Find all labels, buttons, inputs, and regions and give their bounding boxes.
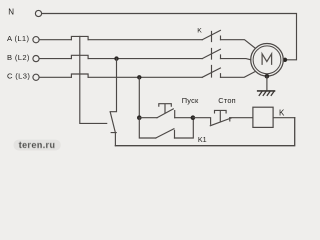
svg-text:teren.ru: teren.ru <box>19 140 56 150</box>
wire phase A terminal to breaker <box>39 39 71 41</box>
auxiliary contact K1 <box>156 129 175 138</box>
wire N rail to motor <box>42 14 297 60</box>
wire phase A breaker to contactor <box>88 39 202 41</box>
junction node 2 <box>191 115 196 120</box>
wire contact B to motor <box>221 59 251 60</box>
ground <box>258 91 275 96</box>
watermark teren.ru <box>14 140 61 151</box>
svg-text:K: K <box>279 109 285 118</box>
svg-text:Пуск: Пуск <box>182 96 199 105</box>
svg-text:K1: K1 <box>198 135 207 144</box>
wire phase C terminal to breaker <box>39 76 71 78</box>
svg-text:C (L3): C (L3) <box>7 72 30 81</box>
wire coil K to right rail <box>273 117 295 119</box>
label M motor <box>262 54 272 65</box>
wire phase C breaker to contactor <box>88 76 202 78</box>
junction tap phase B <box>114 56 118 60</box>
junction motor right node <box>283 58 287 62</box>
svg-text:A (L1): A (L1) <box>7 34 29 43</box>
junction motor bottom node <box>265 74 270 79</box>
wire contact C to motor <box>221 71 256 77</box>
Стоп actuator <box>215 110 227 121</box>
wire phase B terminal to breaker <box>39 58 71 60</box>
wire Стоп to coil K <box>230 117 253 119</box>
wire node 1 down to K1 contact <box>139 118 156 138</box>
terminal N <box>35 10 41 16</box>
svg-text:Стоп: Стоп <box>218 96 236 105</box>
motor M <box>251 44 284 77</box>
contactor K contact B <box>202 49 220 58</box>
wire contact A to motor <box>221 40 256 49</box>
wire phase B breaker to contactor <box>88 58 202 60</box>
wire node 2 to Стоп button <box>193 118 211 125</box>
contactor K linkage (dashed) <box>211 32 213 78</box>
contactor K contact A <box>202 30 220 39</box>
breaker QF pole C <box>71 74 88 77</box>
Пуск actuator <box>159 104 172 113</box>
pushbutton Стоп (NC) <box>210 118 231 126</box>
svg-text:B (L2): B (L2) <box>7 53 30 62</box>
svg-text:N: N <box>8 8 14 17</box>
terminal A (L1) <box>33 37 39 43</box>
contactor coil K <box>253 107 273 127</box>
wire bottom rail (coil return) <box>115 118 294 146</box>
thermal relay NC contact <box>110 112 116 146</box>
terminal C (L3) <box>33 74 39 80</box>
wire node 1 to Пуск button <box>139 117 157 119</box>
breaker QF pole A <box>71 36 88 39</box>
wire K1 to node 2 <box>175 118 194 138</box>
contactor K contact C <box>202 68 220 77</box>
pushbutton Пуск (NO) <box>157 109 175 118</box>
wire tap B down to thermal contact <box>110 59 116 112</box>
svg-text:K: K <box>197 28 202 35</box>
terminal B (L2) <box>33 56 39 62</box>
wire Пуск to node 2 <box>175 117 193 119</box>
wire motor to ground <box>266 76 268 90</box>
breaker QF pole B <box>71 55 88 58</box>
breaker QF linkage bar <box>80 36 107 123</box>
junction tap phase C <box>137 75 141 79</box>
junction node 1 <box>137 115 142 120</box>
wire tap C down to node 1 <box>138 77 140 117</box>
